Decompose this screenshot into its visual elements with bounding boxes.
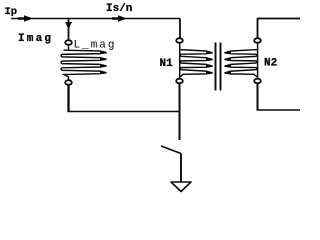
wire top horizontal bbox=[11, 18, 180, 20]
wire primary bottom down to switch bbox=[179, 83, 181, 140]
node circle L_mag top bbox=[65, 40, 72, 45]
svg-text:Imag: Imag bbox=[18, 33, 53, 45]
wire transformer left vertical drop from top wire bbox=[179, 19, 181, 39]
inductor L_mag coil tip fills bbox=[100, 51, 107, 74]
wire secondary top to right edge bbox=[257, 19, 300, 39]
wire switch to ground bbox=[180, 154, 182, 183]
arrow Ip current bbox=[18, 15, 33, 21]
wire bottom left horizontal bbox=[68, 111, 181, 113]
transformer secondary winding tip fills bbox=[224, 51, 231, 74]
node circle N2 top bbox=[254, 38, 261, 43]
node circle N1 bottom bbox=[176, 79, 183, 84]
svg-text:N2: N2 bbox=[264, 58, 277, 70]
transformer secondary winding N2 bbox=[225, 43, 258, 79]
svg-text:L_mag: L_mag bbox=[74, 40, 117, 52]
svg-text:N1: N1 bbox=[160, 58, 174, 70]
switch blade bbox=[161, 146, 181, 154]
transformer primary winding N1 bbox=[180, 43, 213, 80]
wire Imag drop bbox=[68, 19, 70, 41]
node circle N2 bottom bbox=[254, 79, 261, 84]
wire secondary bottom horizontal to right edge bbox=[257, 109, 301, 111]
svg-text:Is/n: Is/n bbox=[106, 3, 132, 15]
node circle N1 top bbox=[176, 38, 183, 43]
arrow Imag current bbox=[65, 22, 72, 29]
inductor L_mag coil bbox=[61, 45, 107, 81]
transformer core bbox=[216, 43, 221, 91]
transformer primary winding tip fills bbox=[206, 51, 213, 74]
arrow Is/n current bbox=[112, 15, 127, 21]
ground bbox=[171, 182, 191, 192]
wire bottom left (L_mag to switch column) bbox=[67, 85, 69, 112]
svg-text:Ip: Ip bbox=[5, 6, 18, 18]
node circle L_mag bottom bbox=[65, 80, 72, 85]
wire secondary bottom to right edge bbox=[257, 83, 259, 110]
